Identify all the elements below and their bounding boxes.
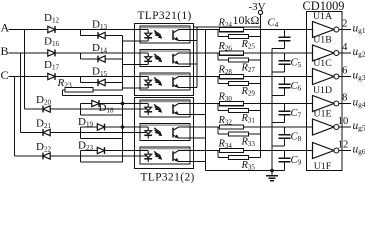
inverter U1D [313, 96, 335, 112]
svg-text:10: 10 [338, 116, 349, 127]
svg-text:2: 2 [342, 19, 347, 30]
svg-text:U1F: U1F [314, 161, 332, 172]
wire rail v3 lower emitters to ground [205, 30, 207, 171]
wire branch row 3 [80, 77, 82, 83]
diode D21 [43, 129, 50, 136]
wire collector line ch4 [190, 103, 313, 105]
wire drop from C to row 6 [14, 77, 16, 157]
resistor R34 [220, 148, 244, 152]
resistor R28 [220, 74, 244, 78]
optocoupler cell 6 [140, 147, 190, 164]
pin 8 output wire [339, 103, 351, 105]
wire cathode stub row 2 [123, 64, 149, 66]
wire cathode stub row 1 [123, 40, 149, 42]
inverter U1C [313, 69, 335, 85]
wire drop from A to row 4 [24, 30, 26, 110]
diode D15 [98, 79, 105, 86]
resistor R32 [220, 125, 244, 129]
inverter U1F [313, 143, 335, 159]
capacitor C5 [284, 53, 286, 61]
wire branch row 6 [80, 151, 82, 163]
svg-text:TLP321(1): TLP321(1) [138, 10, 192, 22]
ground [271, 171, 273, 176]
inverter U1E [313, 119, 335, 135]
svg-text:U1B: U1B [313, 34, 332, 45]
capacitor C9 [284, 151, 286, 159]
svg-text:U1C: U1C [313, 58, 332, 69]
wire ground rail [271, 49, 273, 171]
svg-text:B: B [1, 44, 9, 58]
wire drop from B to row 5 [20, 53, 22, 133]
wire phase A main row 1 [9, 29, 149, 31]
svg-text:C7: C7 [291, 108, 302, 120]
svg-text:C: C [1, 68, 9, 82]
optocoupler cell 1 [140, 26, 190, 43]
wire cathode stub row 4 [81, 114, 123, 116]
opto package TLP321(1) [135, 24, 194, 96]
resistor R29 [217, 77, 219, 84]
wire cathode stub row 6 [81, 161, 123, 163]
svg-text:4: 4 [342, 42, 348, 53]
diode D23 [97, 147, 104, 154]
wire collector line ch2 [190, 52, 313, 54]
wire emitter pin ch3 [190, 87, 197, 89]
svg-text:U1A: U1A [313, 11, 332, 22]
svg-text:C5: C5 [291, 58, 302, 70]
wire collector line ch6 [190, 150, 313, 152]
resistor R25 [217, 30, 219, 37]
resistor R35 [217, 151, 219, 158]
svg-text:-3V: -3V [249, 1, 266, 13]
svg-text:10kΩ: 10kΩ [233, 13, 260, 27]
optocoupler cell 5 [140, 124, 190, 141]
pin 6 output wire [339, 76, 351, 78]
diode D22 [43, 153, 50, 160]
svg-text:C4: C4 [268, 18, 279, 30]
inverter U1B [313, 45, 335, 61]
resistor R26 [220, 51, 244, 55]
resistor R31 [217, 104, 219, 111]
svg-text:TLP321(2): TLP321(2) [141, 172, 195, 184]
wire collector line ch5 [190, 126, 313, 128]
wire collector line ch1 [190, 29, 313, 31]
resistor R24 [220, 27, 244, 31]
inverter U1A [313, 22, 335, 38]
wire branch row 2 [80, 53, 82, 59]
diode D13 [98, 32, 105, 39]
svg-text:C9: C9 [291, 155, 302, 167]
wire emitter pin ch2 [190, 63, 197, 65]
diode D17 [48, 73, 55, 80]
pin 12 output wire [339, 150, 351, 152]
diode D14 [98, 56, 105, 63]
diode D20 [43, 106, 50, 113]
diode D19 [97, 124, 104, 131]
svg-text:A: A [1, 20, 10, 34]
capacitor C6 [284, 77, 286, 85]
wire collector line ch3 [190, 76, 313, 78]
resistor R27 [217, 53, 219, 60]
svg-text:C8: C8 [291, 132, 302, 144]
wire emitter pin ch6 [190, 161, 206, 163]
capacitor C7 [284, 104, 286, 112]
resistor R33 [217, 127, 219, 134]
svg-text:6: 6 [342, 66, 347, 77]
wire -3V rail [260, 15, 262, 158]
wire phase B main row 2 [9, 52, 149, 54]
optocoupler cell 3 [140, 73, 190, 90]
capacitor C8 [284, 127, 286, 135]
wire cathode stub row 3 [123, 87, 149, 89]
svg-text:U1D: U1D [313, 85, 332, 96]
resistor R30 [220, 101, 244, 105]
wire emitter pin ch1 [190, 40, 197, 42]
wire emitter pin ch4 [190, 114, 206, 116]
wire branch row 4 [80, 104, 82, 116]
optocoupler cell 2 [140, 50, 190, 67]
pin 10 output wire [339, 126, 351, 128]
diode D18 [92, 100, 99, 107]
pin 4 output wire [339, 52, 351, 54]
resistor R23 [93, 89, 123, 91]
wire rail v2 upper emitters to -3V [196, 27, 198, 88]
wire branch row 5 [80, 127, 82, 139]
svg-text:C6: C6 [291, 81, 302, 93]
svg-text:12: 12 [338, 140, 349, 151]
svg-text:U1E: U1E [314, 108, 332, 119]
wire cathode stub row 5 [81, 138, 123, 140]
junction ground [270, 169, 274, 173]
wire branch row 1 [80, 30, 82, 36]
wire cathode bus upper [122, 36, 124, 90]
svg-text:8: 8 [342, 93, 347, 104]
wire return bus lower [122, 95, 124, 162]
wire main row 4 [25, 108, 149, 110]
optocoupler cell 4 [140, 100, 190, 117]
pin 2 output wire [339, 29, 351, 31]
wire phase C main row 3 [9, 76, 149, 78]
junction row4 [121, 102, 125, 106]
wire main row 5 [21, 132, 149, 134]
junction row5 [121, 125, 125, 129]
capacitor C4 [284, 30, 286, 38]
diode D16 [48, 50, 55, 57]
wire emitter pin ch5 [190, 137, 206, 139]
opto package TLP321(2) [135, 98, 194, 169]
diode D12 [48, 26, 55, 33]
wire main row 6 [15, 155, 149, 157]
